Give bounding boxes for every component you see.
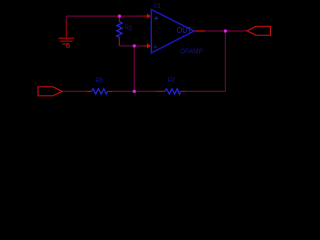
svg-text:Rg: Rg xyxy=(125,24,133,32)
svg-text:OUT: OUT xyxy=(177,26,192,36)
svg-text:U1: U1 xyxy=(154,2,161,10)
svg-text:Rf: Rf xyxy=(168,78,175,85)
svg-text:OPAMP: OPAMP xyxy=(180,48,203,55)
svg-text:Rb: Rb xyxy=(96,77,104,85)
